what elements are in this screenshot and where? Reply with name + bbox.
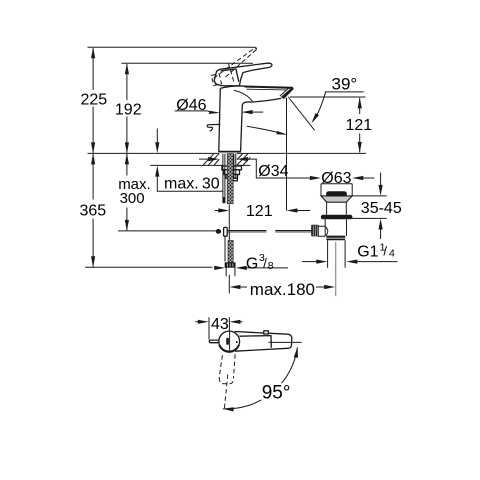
svg-text:max.180: max.180 [250, 280, 315, 299]
drain side port [318, 226, 325, 236]
handle slot mark [226, 338, 229, 345]
mounting nut [224, 170, 240, 175]
rod ball joint [216, 229, 222, 234]
spout top edge [245, 87, 293, 88]
faucet body sides [219, 88, 243, 151]
svg-text:/: / [263, 256, 267, 271]
dimension angle 39 [311, 74, 363, 123]
svg-text:/: / [383, 244, 387, 259]
spout inner contour [234, 90, 253, 101]
drain flange chamfer [321, 196, 352, 202]
dimension diameter 63 [300, 170, 374, 187]
extension line spout outlet vertical [286, 98, 288, 211]
supply level reference line (365 bottom) [85, 266, 213, 268]
extension line spout tip horizontal [290, 96, 366, 98]
rod cross fitting [224, 227, 228, 236]
faucet base bottom [218, 151, 241, 153]
nut small step [233, 178, 237, 181]
svg-text:192: 192 [115, 101, 142, 118]
svg-text:G: G [246, 255, 258, 272]
drain body upper [327, 202, 347, 215]
housing right edge [236, 69, 239, 82]
pop-up rod (horizontal) [227, 231, 311, 232]
svg-text:300: 300 [120, 190, 145, 207]
left supply hose [223, 154, 225, 203]
svg-text:121: 121 [346, 117, 373, 134]
handle lever (top view) [235, 332, 292, 352]
nut step [226, 175, 238, 179]
dimension diameter 34 [199, 157, 321, 180]
threaded supply pipe G3/8 [228, 241, 233, 263]
dimension 121 vertical [346, 97, 373, 152]
right supply hose [234, 154, 236, 179]
handle left pin [209, 340, 219, 343]
water stream line [288, 97, 314, 130]
dimension 121 horizontal [215, 203, 311, 220]
faucet dome top [220, 86, 246, 88]
aerator face [281, 87, 294, 99]
vertical rod below cross [224, 236, 226, 261]
dimension 95 text [261, 383, 291, 400]
flow direction arrow [247, 126, 288, 135]
max.300 bottom reference line [118, 230, 216, 232]
lever inner line [240, 336, 272, 348]
extension line 192 ref [121, 62, 253, 64]
diameter 46 right arrow [242, 110, 253, 114]
raised lever phantom (dashed) [214, 48, 256, 79]
dimension 35-45 [352, 173, 402, 239]
countertop hatching right [237, 154, 250, 166]
drain bottom ring [326, 236, 345, 238]
dimension 43 (top view) [195, 316, 242, 340]
pivot circle thick lower arc [219, 345, 239, 352]
svg-text:max. 30: max. 30 [164, 176, 220, 193]
dimension max.180 [229, 280, 335, 299]
handle 95 reference line [269, 341, 302, 343]
dimension 192 [115, 63, 142, 153]
svg-text:Ø63: Ø63 [321, 170, 351, 187]
svg-text:365: 365 [80, 203, 107, 220]
svg-text:43: 43 [211, 316, 229, 333]
mounting washer [222, 166, 242, 170]
rotated lever center line [224, 375, 228, 411]
svg-text:121: 121 [246, 203, 273, 220]
knurled nipple [225, 263, 235, 268]
handle top view pivot circle [219, 331, 240, 352]
svg-text:Ø34: Ø34 [258, 163, 288, 180]
drain knob [311, 225, 319, 237]
drain center line [335, 242, 337, 296]
dimension diameter 46 [175, 97, 264, 114]
drain gasket [321, 215, 353, 220]
faucet lever (side view, rest position) [214, 63, 272, 86]
svg-text:G1: G1 [357, 243, 378, 260]
hidden cartridge line (dashed) [228, 63, 234, 82]
rotated lever phantom (dashed) [219, 354, 235, 384]
countertop hatching left [203, 154, 219, 165]
svg-text:39°: 39° [332, 74, 358, 93]
lever tail hook [207, 124, 220, 131]
drain tailpipe [328, 240, 346, 267]
svg-text:4: 4 [389, 248, 395, 260]
lever inner edge line [221, 69, 237, 71]
threaded mounting stud [227, 154, 233, 204]
dimension 225 [81, 47, 108, 153]
svg-text:95°: 95° [262, 383, 291, 404]
extension line top (225 ref) [88, 46, 256, 48]
hidden housing quad (dashed) [211, 74, 221, 86]
svg-text:35-45: 35-45 [361, 200, 402, 217]
handle dot [236, 341, 238, 343]
dimension angle 95 arc [223, 348, 298, 409]
extension line faucet axis below shank [228, 205, 230, 294]
svg-text:225: 225 [81, 92, 108, 109]
drain plug cap [326, 191, 347, 196]
svg-text:8: 8 [268, 260, 274, 272]
spout underside [242, 98, 281, 105]
dimension max.30 [155, 129, 223, 193]
dimension G1 1/4 [302, 241, 398, 263]
lever top notch [264, 331, 269, 334]
drain flange rim [321, 184, 352, 196]
supply pipe below nipple [226, 267, 235, 276]
dimension max.300 [118, 153, 151, 231]
countertop top line [88, 152, 367, 154]
drain body lower [325, 219, 346, 236]
dimension G3/8 [214, 252, 288, 272]
dimension 365 [80, 153, 107, 267]
handle center line vertical [229, 330, 231, 353]
countertop bottom line [150, 164, 250, 166]
